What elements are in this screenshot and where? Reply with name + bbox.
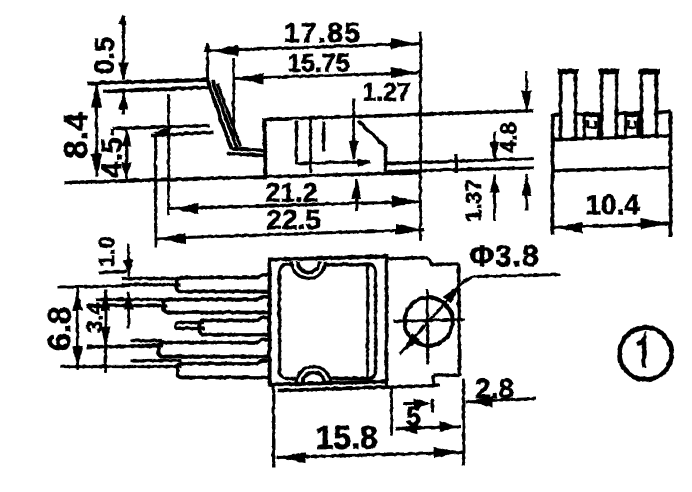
- svg-text:8.4: 8.4: [57, 111, 94, 158]
- svg-text:15.75: 15.75: [287, 49, 350, 77]
- svg-text:22.5: 22.5: [266, 204, 321, 235]
- svg-text:1.0: 1.0: [94, 236, 119, 267]
- svg-text:17.85: 17.85: [283, 17, 361, 48]
- svg-text:15.8: 15.8: [315, 419, 377, 455]
- svg-text:21.2: 21.2: [265, 177, 318, 207]
- svg-text:4.8: 4.8: [496, 122, 521, 153]
- svg-text:1.27: 1.27: [362, 78, 411, 106]
- svg-text:Φ3.8: Φ3.8: [469, 240, 539, 273]
- svg-text:0.5: 0.5: [89, 36, 119, 74]
- svg-text:1.37: 1.37: [461, 179, 486, 222]
- svg-text:6.8: 6.8: [41, 306, 77, 350]
- svg-text:10.4: 10.4: [585, 189, 640, 220]
